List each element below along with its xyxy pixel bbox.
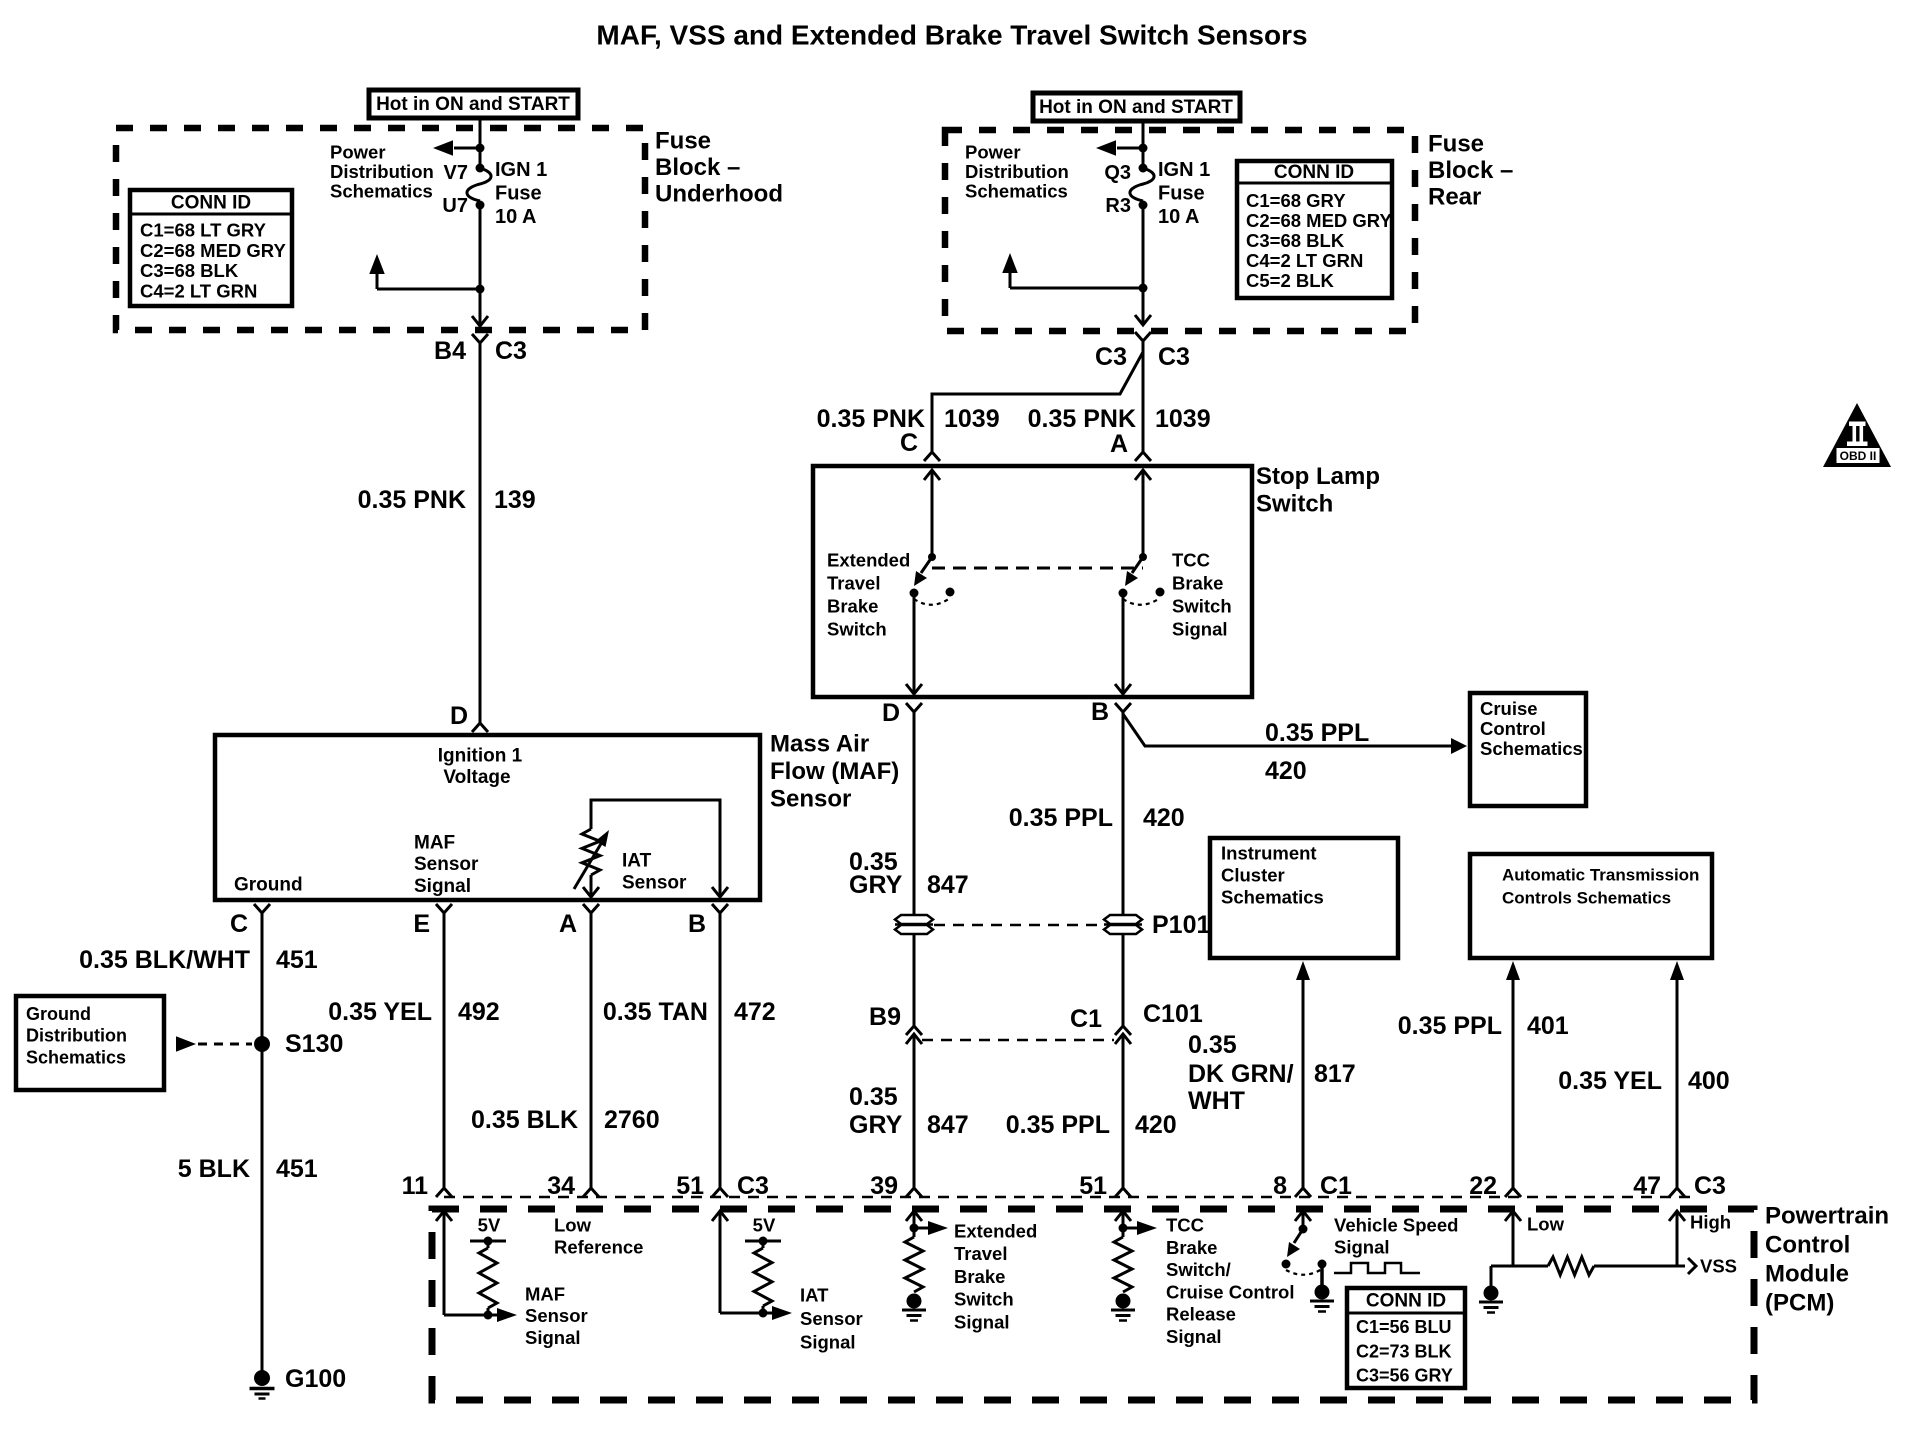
wire from hot box (right) into fuse block (1142, 121, 1145, 168)
in-line connector C1/C101 (1070, 1000, 1203, 1044)
IAT pull-up resistor (754, 1248, 772, 1306)
MAF sensor signal text (PCM) (525, 1284, 588, 1348)
svg-text:Fuse: Fuse (655, 128, 711, 155)
svg-text:Cruise: Cruise (1480, 698, 1538, 719)
svg-text:Q3: Q3 (1104, 162, 1131, 184)
svg-text:OBD II: OBD II (1840, 449, 1877, 463)
PCM entry arrow pin 47 (High) (1669, 1211, 1731, 1266)
svg-text:C2=73 BLK: C2=73 BLK (1356, 1341, 1452, 1361)
svg-text:Powertrain: Powertrain (1765, 1203, 1889, 1230)
svg-text:Ground: Ground (26, 1004, 91, 1024)
svg-text:39: 39 (870, 1172, 898, 1200)
svg-text:Extended: Extended (827, 550, 910, 571)
wire 139 from fuse block to MAF sensor (479, 343, 482, 723)
stop lamp switch box (813, 466, 1252, 697)
svg-text:2760: 2760 (604, 1106, 660, 1134)
svg-text:Distribution: Distribution (330, 161, 434, 182)
wire label 0.35 BLK 2760 (471, 1106, 660, 1134)
IAT signal junction and arrow (720, 1306, 792, 1320)
svg-text:IAT: IAT (622, 851, 652, 872)
svg-text:S130: S130 (285, 1030, 343, 1058)
svg-text:8: 8 (1273, 1172, 1287, 1200)
stop lamp pin A (1110, 430, 1151, 461)
svg-text:C1=68 GRY: C1=68 GRY (1246, 190, 1346, 211)
wire label 0.35 GRY 847 (upper) (849, 848, 969, 899)
fuse IGN1 Q3/R3 (right) (1104, 162, 1154, 217)
svg-text:1039: 1039 (1155, 405, 1211, 433)
svg-text:B: B (1091, 698, 1109, 726)
svg-text:1039: 1039 (944, 405, 1000, 433)
svg-text:Fuse: Fuse (495, 183, 542, 205)
ground distribution schematics box (16, 996, 164, 1090)
wire label 0.35 BLK/WHT 451 (79, 946, 318, 974)
pin D of MAF sensor (450, 702, 488, 732)
extended travel ground (907, 1294, 922, 1309)
svg-text:D: D (882, 699, 900, 727)
svg-text:Power: Power (330, 142, 386, 163)
svg-text:0.35 PPL: 0.35 PPL (1006, 1111, 1110, 1139)
svg-text:Schematics: Schematics (1480, 738, 1583, 759)
svg-text:0.35 YEL: 0.35 YEL (328, 998, 432, 1026)
MAF pin B (688, 904, 728, 938)
wire label 0.35 PPL 420 (cruise branch) (1265, 719, 1369, 785)
powertrain control module dashed box (432, 1209, 1754, 1400)
svg-text:IAT: IAT (800, 1285, 829, 1306)
svg-text:MAF: MAF (525, 1284, 565, 1305)
wire label 0.35 PNK 1039 (right branch) (1028, 405, 1211, 433)
svg-text:5 BLK: 5 BLK (178, 1155, 250, 1183)
CONN ID table (underhood) (130, 190, 292, 306)
svg-text:0.35 TAN: 0.35 TAN (603, 998, 708, 1026)
wire 817 PCM 8 to instrument cluster (1296, 961, 1310, 1188)
svg-text:R3: R3 (1105, 195, 1131, 217)
svg-text:Underhood: Underhood (655, 181, 783, 208)
VSS output arrow (1677, 1256, 1737, 1277)
PCM pin 47 C3 (1633, 1172, 1726, 1200)
svg-text:C2=68 MED GRY: C2=68 MED GRY (140, 240, 286, 261)
svg-text:420: 420 (1265, 757, 1307, 785)
svg-text:C3=68 BLK: C3=68 BLK (1246, 230, 1345, 251)
svg-text:Mass Air: Mass Air (770, 731, 869, 758)
fuse IGN1 V7/U7 (left) (442, 162, 491, 217)
MAF sensor signal label (414, 833, 479, 897)
power distribution up-arrow branch (left) (369, 254, 480, 289)
power distribution schematics label (left) (330, 142, 434, 202)
extended travel pull-down resistor (905, 1237, 923, 1292)
svg-text:Distribution: Distribution (26, 1026, 127, 1046)
svg-text:Fuse: Fuse (1428, 131, 1484, 158)
MAF signal pull-up: 5V rail (470, 1215, 506, 1249)
wire label 0.35 PPL 420 (upper) (1009, 804, 1185, 832)
svg-text:Cluster: Cluster (1221, 865, 1285, 886)
svg-text:Control: Control (1765, 1232, 1850, 1259)
extended travel brake switch (left switch) (910, 470, 955, 605)
svg-text:A: A (1110, 430, 1128, 458)
svg-text:0.35 PNK: 0.35 PNK (358, 486, 466, 514)
PCM connector row dashed line (444, 1196, 1690, 1199)
svg-text:Switch: Switch (954, 1289, 1014, 1310)
svg-text:11: 11 (402, 1172, 429, 1200)
svg-text:Voltage: Voltage (443, 767, 510, 788)
fuse value label IGN 1 Fuse 10 A (right) (1158, 159, 1210, 228)
wire from hot box into fuse block (479, 118, 482, 168)
svg-text:B9: B9 (869, 1003, 901, 1031)
wire label 0.35 PNK 139 (358, 486, 536, 514)
PCM pin 34 (547, 1172, 599, 1200)
PCM pin 39 (870, 1172, 922, 1200)
svg-text:C1: C1 (1070, 1005, 1102, 1033)
svg-text:V7: V7 (444, 162, 468, 184)
svg-text:C3: C3 (737, 1172, 769, 1200)
svg-text:492: 492 (458, 998, 500, 1026)
svg-text:C: C (900, 429, 918, 457)
wire label 0.35 YEL 400 (1558, 1067, 1730, 1095)
svg-text:0.35 PNK: 0.35 PNK (1028, 405, 1136, 433)
svg-text:Signal: Signal (954, 1311, 1010, 1332)
svg-text:Brake: Brake (954, 1266, 1005, 1287)
PCM entry arrow pin 11 (436, 1211, 452, 1315)
extended travel brake switch signal text (954, 1221, 1037, 1333)
svg-text:P101: P101 (1152, 911, 1210, 939)
svg-text:22: 22 (1469, 1172, 1497, 1200)
svg-text:Signal: Signal (1334, 1237, 1390, 1258)
wire below fuse to branch junction (476, 205, 485, 294)
IAT thermistor (resistor with arrow) (574, 829, 609, 889)
svg-text:Power: Power (965, 142, 1021, 163)
svg-text:D: D (450, 702, 468, 730)
left switch output wire to box bottom (906, 593, 922, 694)
svg-text:Travel: Travel (827, 573, 881, 594)
svg-text:Hot in ON and START: Hot in ON and START (376, 94, 570, 115)
CONN ID table (PCM) (1347, 1288, 1465, 1388)
PCM entry arrow pin 39 (906, 1211, 922, 1237)
svg-text:GRY: GRY (849, 1111, 903, 1139)
IAT sensor signal text (PCM) (800, 1285, 863, 1353)
svg-text:Switch: Switch (1256, 491, 1333, 518)
vehicle speed switch ground (1315, 1285, 1330, 1300)
svg-text:B: B (688, 910, 706, 938)
svg-text:U7: U7 (442, 195, 468, 217)
svg-text:34: 34 (547, 1172, 575, 1200)
svg-text:Switch: Switch (1172, 596, 1232, 617)
svg-text:Signal: Signal (800, 1332, 856, 1353)
svg-text:Distribution: Distribution (965, 161, 1069, 182)
svg-text:MAF: MAF (414, 833, 455, 854)
wire 492 pin E to PCM 11 (443, 913, 446, 1188)
ground G100 (250, 1365, 347, 1399)
svg-text:B4: B4 (434, 337, 466, 365)
ignition 1 voltage label (438, 746, 523, 789)
IAT output arrows at box bottom (583, 875, 728, 897)
branch wire to cruise control (1123, 714, 1467, 754)
svg-text:CONN ID: CONN ID (1366, 1291, 1446, 1312)
wire 401 PCM 22 to automatic transmission box (1506, 961, 1520, 1188)
svg-text:WHT: WHT (1188, 1087, 1245, 1115)
svg-text:CONN ID: CONN ID (1274, 162, 1354, 183)
svg-text:G100: G100 (285, 1365, 346, 1393)
PCM label (1765, 1203, 1889, 1317)
wire 472 pin B to PCM 51 (719, 913, 722, 1188)
wire label 0.35 GRY 847 (lower) (849, 1083, 969, 1139)
svg-text:C2=68 MED GRY: C2=68 MED GRY (1246, 210, 1392, 231)
PCM pin 11 (402, 1172, 452, 1200)
PCM entry arrow pin 8 (1295, 1211, 1311, 1234)
svg-text:Fuse: Fuse (1158, 183, 1205, 205)
MAF signal pull-up resistor (479, 1248, 497, 1308)
splice S130 (254, 1030, 343, 1058)
wire label 0.35 PPL 401 (1398, 1012, 1569, 1040)
PCM entry arrow pin 51 C3 (712, 1211, 728, 1313)
extended travel signal arrow (914, 1221, 948, 1235)
speed signal square wave (1334, 1263, 1420, 1273)
ground wire C to S130 (261, 913, 264, 1373)
wire below fuse to branch junction (right) (1139, 205, 1148, 293)
svg-text:TCC: TCC (1166, 1215, 1204, 1236)
Hot in ON and START box (right) (1033, 93, 1240, 121)
VSS termination resistor (1513, 1257, 1677, 1275)
svg-text:0.35 BLK: 0.35 BLK (471, 1106, 578, 1134)
svg-text:5V: 5V (478, 1215, 501, 1236)
svg-text:Signal: Signal (414, 876, 471, 897)
svg-text:0.35 PPL: 0.35 PPL (1398, 1012, 1502, 1040)
PCM entry arrow pin 51 (1115, 1211, 1131, 1237)
svg-text:Low: Low (1527, 1214, 1565, 1235)
automatic transmission controls schematics box (1470, 854, 1712, 958)
IAT pull-up: 5V rail (745, 1215, 781, 1249)
CONN ID table (rear) (1237, 161, 1392, 298)
IAT sensor label (622, 851, 687, 894)
low reference text (554, 1215, 643, 1258)
svg-text:51: 51 (1079, 1172, 1107, 1200)
svg-text:Schematics: Schematics (26, 1047, 126, 1067)
pass-through connector P101 left (895, 915, 933, 924)
svg-text:Cruise Control: Cruise Control (1166, 1281, 1294, 1302)
svg-text:Reference: Reference (554, 1237, 643, 1258)
PCM pin 8 C1 (1273, 1172, 1352, 1200)
svg-text:Brake: Brake (827, 596, 878, 617)
svg-text:0.35 BLK/WHT: 0.35 BLK/WHT (79, 946, 250, 974)
svg-text:0.35: 0.35 (1188, 1031, 1237, 1059)
wire label 0.35 DK GRN/WHT 817 (1188, 1031, 1356, 1115)
svg-text:C3=56 GRY: C3=56 GRY (1356, 1366, 1453, 1386)
wire exiting fuse block bottom with arrowhead (472, 289, 488, 326)
svg-text:High: High (1690, 1212, 1731, 1233)
svg-text:Controls Schematics: Controls Schematics (1502, 889, 1671, 908)
svg-text:Brake: Brake (1166, 1237, 1217, 1258)
svg-text:IGN 1: IGN 1 (495, 159, 547, 181)
connector B4/C3 below fuse block (434, 334, 527, 365)
svg-text:Sensor: Sensor (525, 1305, 588, 1326)
svg-text:401: 401 (1527, 1012, 1569, 1040)
svg-text:Signal: Signal (525, 1327, 581, 1348)
svg-text:Low: Low (554, 1215, 592, 1236)
svg-text:Ground: Ground (234, 875, 303, 896)
fuse block underhood label (655, 128, 783, 208)
svg-text:C3: C3 (1158, 343, 1190, 371)
svg-text:C3: C3 (1694, 1172, 1726, 1200)
svg-text:E: E (413, 910, 430, 938)
MAF signal junction and arrow (444, 1308, 517, 1322)
svg-text:DK GRN/: DK GRN/ (1188, 1060, 1294, 1088)
svg-text:Instrument: Instrument (1221, 843, 1317, 864)
svg-text:Flow (MAF): Flow (MAF) (770, 758, 899, 785)
svg-text:C3: C3 (495, 337, 527, 365)
wire label 0.35 PPL 420 (lower) (1006, 1111, 1177, 1139)
svg-text:Switch/: Switch/ (1166, 1259, 1231, 1280)
wire split to stop lamp switch C branch (932, 341, 1143, 452)
svg-text:472: 472 (734, 998, 776, 1026)
svg-text:Hot in ON and START: Hot in ON and START (1039, 97, 1233, 118)
svg-text:Module: Module (1765, 1261, 1849, 1288)
PCM pin 22 (1469, 1172, 1521, 1200)
svg-text:451: 451 (276, 1155, 318, 1183)
vehicle speed signal text (1334, 1215, 1458, 1258)
svg-text:0.35 PPL: 0.35 PPL (1265, 719, 1369, 747)
svg-text:Automatic Transmission: Automatic Transmission (1502, 866, 1699, 885)
svg-text:A: A (559, 910, 577, 938)
VSS ground (1484, 1286, 1499, 1301)
extended travel brake switch label (827, 550, 910, 640)
TCC brake switch text (1166, 1215, 1294, 1348)
svg-text:451: 451 (276, 946, 318, 974)
PCM pin 51 C3 (676, 1172, 769, 1200)
svg-text:0.35 YEL: 0.35 YEL (1558, 1067, 1662, 1095)
svg-text:Vehicle Speed: Vehicle Speed (1334, 1215, 1458, 1236)
svg-text:51: 51 (676, 1172, 704, 1200)
OBD II symbol (1823, 403, 1891, 467)
svg-text:Extended: Extended (954, 1221, 1037, 1242)
dashed arrow to S130 (176, 1036, 252, 1052)
svg-text:GRY: GRY (849, 871, 903, 899)
PCM pin 51 (C2) (1079, 1172, 1131, 1200)
vehicle speed switch (1282, 1229, 1327, 1285)
in-line connector B9 (869, 1003, 922, 1044)
Hot in ON and START box (left) (369, 90, 578, 118)
svg-text:847: 847 (927, 871, 969, 899)
svg-text:IGN 1: IGN 1 (1158, 159, 1210, 181)
svg-text:(PCM): (PCM) (1765, 1290, 1834, 1317)
TCC ground (1116, 1294, 1131, 1309)
pass-through connector P101 right (1104, 911, 1210, 939)
svg-text:Block –: Block – (655, 154, 740, 181)
cruise control schematics box (1470, 693, 1586, 806)
connector C3 x C3 below fuse block rear (1095, 332, 1190, 371)
svg-text:Schematics: Schematics (965, 181, 1068, 202)
svg-text:C1=56 BLU: C1=56 BLU (1356, 1317, 1452, 1337)
svg-text:Release: Release (1166, 1304, 1236, 1325)
power distribution schematics label (right) (965, 142, 1069, 202)
svg-text:Schematics: Schematics (330, 181, 433, 202)
svg-text:C4=2 LT GRN: C4=2 LT GRN (1246, 250, 1363, 271)
svg-text:47: 47 (1633, 1172, 1661, 1200)
mechanical link dashed line (932, 567, 1143, 570)
MAF box label Mass Air Flow (MAF) Sensor (770, 731, 899, 813)
svg-text:C3: C3 (1095, 343, 1127, 371)
svg-text:Sensor: Sensor (800, 1308, 863, 1329)
wire label 0.35 PNK 1039 (left branch) (817, 405, 1000, 433)
svg-text:420: 420 (1143, 804, 1185, 832)
svg-text:Block –: Block – (1428, 157, 1513, 184)
svg-text:Schematics: Schematics (1221, 887, 1324, 908)
svg-text:0.35 PPL: 0.35 PPL (1009, 804, 1113, 832)
MAF pin E (413, 904, 452, 938)
svg-text:C: C (230, 910, 248, 938)
TCC signal arrow (1123, 1221, 1157, 1235)
mass air flow sensor box (215, 735, 760, 900)
svg-text:Sensor: Sensor (622, 873, 687, 894)
power distribution arrow (left) (433, 140, 485, 156)
wire to stop lamp switch A branch (1142, 341, 1145, 452)
fuse value label IGN 1 Fuse 10 A (left) (495, 159, 547, 228)
svg-text:C3=68 BLK: C3=68 BLK (140, 260, 239, 281)
power distribution arrow (right) (1096, 140, 1148, 156)
svg-text:C5=2 BLK: C5=2 BLK (1246, 270, 1335, 291)
svg-text:Rear: Rear (1428, 184, 1481, 211)
svg-text:400: 400 (1688, 1067, 1730, 1095)
svg-text:Stop Lamp: Stop Lamp (1256, 463, 1380, 490)
svg-text:Control: Control (1480, 718, 1546, 739)
wire label 5 BLK 451 (178, 1155, 318, 1183)
svg-text:Signal: Signal (1172, 619, 1228, 640)
power distribution up-arrow branch (right) (1002, 253, 1143, 288)
svg-text:C101: C101 (1143, 1000, 1203, 1028)
svg-text:10 A: 10 A (1158, 206, 1200, 228)
stop lamp pin C (900, 429, 940, 461)
wire exiting fuse block rear with arrowhead (1135, 288, 1151, 325)
VSS low side ground branch (1491, 1266, 1513, 1286)
stop lamp switch label (1256, 463, 1380, 518)
TCC brake switch (right switch) (1119, 470, 1165, 605)
stop lamp pin B (1091, 698, 1131, 726)
wire 420 stop lamp B to PCM 51 (1122, 712, 1125, 1188)
svg-text:C1: C1 (1320, 1172, 1352, 1200)
svg-text:Sensor: Sensor (414, 854, 479, 875)
svg-text:MAF, VSS and Extended Brake Tr: MAF, VSS and Extended Brake Travel Switc… (596, 20, 1307, 51)
svg-text:0.35: 0.35 (849, 1083, 898, 1111)
instrument cluster schematics box (1210, 838, 1398, 958)
svg-text:Sensor: Sensor (770, 786, 851, 813)
fuse block rear dashed box (945, 130, 1415, 331)
svg-text:5V: 5V (753, 1215, 776, 1236)
svg-text:TCC: TCC (1172, 550, 1210, 571)
wire 847 stop lamp D to PCM 39 (913, 712, 916, 1188)
fuse block rear label (1428, 131, 1513, 211)
svg-text:Signal: Signal (1166, 1326, 1222, 1347)
svg-text:420: 420 (1135, 1111, 1177, 1139)
fuse block underhood dashed box (116, 128, 645, 330)
TCC brake switch signal label (1172, 550, 1232, 640)
svg-text:Ignition 1: Ignition 1 (438, 746, 523, 767)
svg-text:139: 139 (494, 486, 536, 514)
PCM entry arrow pin 22 (Low) (1505, 1211, 1565, 1266)
svg-text:817: 817 (1314, 1060, 1356, 1088)
wire label 0.35 TAN 472 (603, 998, 776, 1026)
stop lamp pin D (882, 699, 922, 727)
svg-text:C1=68 LT GRY: C1=68 LT GRY (140, 220, 267, 241)
svg-text:Travel: Travel (954, 1243, 1008, 1264)
svg-text:C4=2 LT GRN: C4=2 LT GRN (140, 280, 257, 301)
P101 dashed link (934, 924, 1103, 927)
wire 2760 pin A to PCM 34 (590, 913, 593, 1188)
svg-text:VSS: VSS (1700, 1256, 1737, 1277)
B9-C101 dashed link (922, 1039, 1114, 1042)
TCC pull-down resistor (1114, 1237, 1132, 1292)
svg-text:CONN ID: CONN ID (171, 193, 251, 214)
svg-text:Switch: Switch (827, 619, 887, 640)
wire label 0.35 YEL 492 (328, 998, 500, 1026)
right switch output wire to box bottom (1115, 593, 1131, 694)
MAF pin C (230, 904, 270, 938)
